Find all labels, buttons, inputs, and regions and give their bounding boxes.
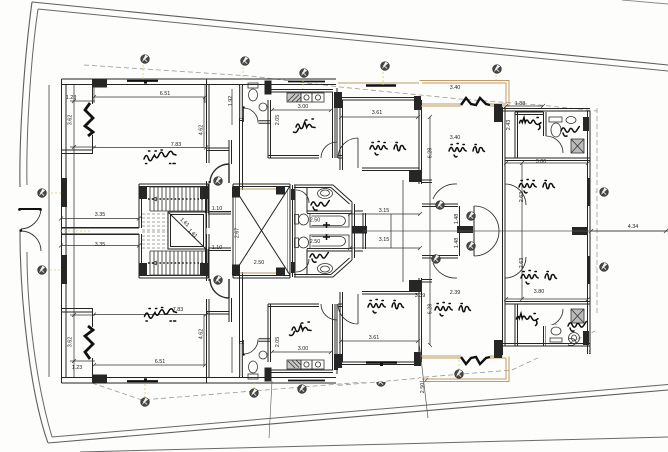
site boundary left outer line — [20, 2, 48, 443]
dashed setback line top — [84, 65, 597, 111]
section marker (254,393) — [250, 389, 259, 398]
label kitchen bottom — [290, 322, 312, 336]
double door arcs at mid-right stub — [474, 206, 499, 256]
section marker (381,382) — [377, 378, 386, 387]
corrected south wall of bottom-right rooms — [503, 344, 590, 355]
label kitchen top — [294, 119, 316, 133]
label reception top — [144, 150, 176, 164]
label bedroom 2 bottom — [435, 303, 471, 317]
section marker (459,374) — [455, 370, 464, 379]
label bedroom 2 top — [449, 144, 485, 158]
center long datum line — [363, 230, 668, 232]
label bedroom 1 bottom — [368, 300, 404, 314]
east 4.34 dim line — [591, 230, 668, 232]
svg-text:6.28: 6.28 — [428, 148, 434, 159]
svg-text:3.39: 3.39 — [415, 293, 426, 299]
svg-text:1.48: 1.48 — [454, 214, 460, 225]
party wall stub mid-right — [457, 226, 473, 233]
svg-text:2.50: 2.50 — [310, 218, 321, 224]
boundary line exiting top right corner — [622, 0, 668, 4]
site gate lower leaf — [21, 231, 41, 251]
middle vertical dims — [391, 117, 430, 345]
dashed setback line bottom — [92, 331, 595, 400]
svg-text:3.24: 3.24 — [61, 267, 67, 278]
section marker (218,280) — [214, 276, 223, 285]
section marker (145,59) — [141, 55, 150, 64]
svg-text:3.15: 3.15 — [379, 237, 390, 243]
elevator X diagonals — [233, 186, 290, 275]
label bath center top — [311, 201, 329, 211]
site boundary left inner line — [27, 9, 52, 437]
svg-text:1.10: 1.10 — [212, 206, 223, 212]
bed1 dims — [341, 116, 418, 118]
stair corridor dims — [208, 211, 231, 213]
top 6.51 dim — [94, 85, 205, 103]
svg-text:2.67: 2.67 — [235, 228, 241, 239]
svg-text:3.62: 3.62 — [68, 337, 74, 348]
bottom apartment geometry (mirror about y=231) — [61, 228, 591, 384]
label reception bottom — [145, 308, 177, 322]
kitchen dims — [272, 110, 331, 352]
site gate on left boundary — [19, 208, 41, 210]
svg-text:2.50: 2.50 — [310, 239, 321, 245]
label bedroom right bottom — [521, 271, 557, 285]
section marker (385,66) — [381, 62, 390, 71]
label bath center bottom — [310, 253, 328, 263]
bottom mirror dims — [94, 315, 206, 366]
svg-text:1.23: 1.23 — [66, 95, 77, 101]
left vertical dims — [70, 85, 95, 377]
label bath right top — [561, 127, 579, 137]
stair well box — [168, 212, 206, 249]
svg-text:2.05: 2.05 — [275, 337, 281, 348]
1.92 dim vertical — [231, 89, 233, 373]
svg-text:2.63: 2.63 — [519, 192, 525, 203]
section marker (604,267) — [600, 263, 609, 272]
svg-text:3.40: 3.40 — [450, 85, 461, 91]
gate hinge dots — [18, 208, 21, 211]
svg-text:3.24: 3.24 — [61, 187, 67, 198]
svg-text:1.88: 1.88 — [515, 101, 526, 107]
bottom bed1 facade correction: no balcony strip below wall — [338, 368, 419, 382]
svg-text:3.00: 3.00 — [298, 346, 309, 352]
7.83 dim — [94, 147, 206, 149]
svg-text:3.35: 3.35 — [95, 242, 106, 248]
corrected window bar on bottom bed1 wall — [366, 361, 397, 363]
section marker (604,192) — [600, 188, 609, 197]
section marker (471,246) — [467, 242, 476, 251]
svg-text:1.48: 1.48 — [454, 238, 460, 249]
top apartment geometry — [61, 79, 591, 235]
svg-text:2.63: 2.63 — [519, 258, 525, 269]
dashed setback line right vertical — [596, 108, 598, 314]
svg-text:2.39: 2.39 — [450, 290, 461, 296]
section marker (302,389) — [298, 385, 307, 394]
svg-text:1.92: 1.92 — [228, 96, 234, 107]
section marker (497,69) — [493, 65, 502, 74]
svg-text:3.80: 3.80 — [534, 289, 545, 295]
svg-text:4.34: 4.34 — [628, 224, 639, 230]
dim line 3.61 bottom — [341, 340, 418, 342]
bottom-right block correction: rooms end higher than mirror — [503, 346, 589, 357]
svg-text:4.62: 4.62 — [199, 125, 205, 136]
site boundary bottom inner line — [52, 385, 668, 438]
3.15 dims right of center bath — [350, 214, 420, 248]
corridor walls around mid-right stub — [460, 206, 475, 256]
svg-text:2.50: 2.50 — [420, 383, 426, 394]
svg-text:6.28: 6.28 — [428, 304, 434, 315]
section marker (471,216) — [467, 212, 476, 221]
site boundary top inner line — [38, 9, 668, 71]
leader line bottom kitchen — [269, 381, 272, 438]
section marker (42,270) — [38, 266, 47, 275]
yellow marker droplines — [42, 57, 600, 402]
corrected toilet bottom-right bath — [550, 327, 580, 344]
dimension tick marks — [59, 95, 668, 367]
svg-text:6.51: 6.51 — [155, 359, 166, 365]
svg-text:2.50: 2.50 — [254, 260, 265, 266]
svg-text:1.23: 1.23 — [72, 365, 83, 371]
label dressing top — [520, 118, 542, 130]
label bedroom right top — [519, 180, 555, 194]
redraw dashed setback over patch — [338, 378, 419, 385]
reception right vert dim — [203, 97, 205, 365]
right rooms dims — [506, 106, 588, 350]
svg-text:7.83: 7.83 — [171, 142, 182, 148]
svg-text:4.62: 4.62 — [199, 329, 205, 340]
road edge line bottom — [80, 437, 668, 452]
leader line bed2 corner to boundary with 2.5 — [420, 346, 429, 418]
label bath right bottom — [568, 322, 586, 332]
svg-text:7.83: 7.83 — [173, 307, 184, 313]
yellow leader dotted lines — [47, 192, 600, 231]
svg-text:3.35: 3.35 — [95, 212, 106, 218]
section marker (436,259) — [432, 255, 441, 264]
3.35 dim lines left divider — [61, 219, 139, 246]
party wall stub east — [572, 227, 588, 235]
section marker (304,73) — [300, 69, 309, 78]
svg-text:3.15: 3.15 — [379, 208, 390, 214]
party wall stub center — [352, 226, 367, 234]
svg-text:3.62: 3.62 — [68, 115, 74, 126]
svg-text:3.80: 3.80 — [536, 159, 547, 165]
svg-text:6.51: 6.51 — [160, 91, 171, 97]
section marker (440,205) — [436, 201, 445, 210]
svg-text:3.40: 3.40 — [450, 135, 461, 141]
svg-text:2.05: 2.05 — [275, 115, 281, 126]
svg-text:1.10: 1.10 — [212, 245, 223, 251]
svg-text:3.61: 3.61 — [372, 110, 383, 116]
section marker (42,193) — [38, 189, 47, 198]
label dressing bottom — [517, 314, 539, 326]
section marker (245,61) — [241, 57, 250, 66]
svg-text:3.61: 3.61 — [369, 335, 380, 341]
site boundary top outer line — [32, 2, 668, 65]
svg-text:2.43: 2.43 — [506, 120, 512, 131]
svg-text:3.00: 3.00 — [298, 104, 309, 110]
section marker (145,402) — [141, 398, 150, 407]
right vertical dims x=522 — [521, 163, 523, 299]
site boundary bottom outer line — [48, 390, 668, 443]
label bedroom 1 top — [370, 142, 406, 156]
section marker (218,181) — [214, 177, 223, 186]
